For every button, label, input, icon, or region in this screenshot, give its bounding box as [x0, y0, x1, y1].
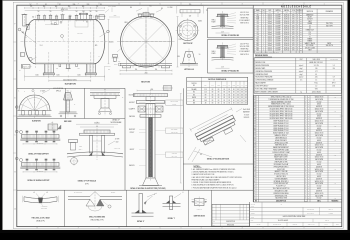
svg-text:NOZZLE DIMENSION: NOZZLE DIMENSION [208, 79, 227, 81]
svg-text:N O Z Z L E S C H E D U L E: N O Z Z L E S C H E D U L E [281, 7, 312, 9]
svg-text:SECTION: SECTION [141, 82, 150, 84]
